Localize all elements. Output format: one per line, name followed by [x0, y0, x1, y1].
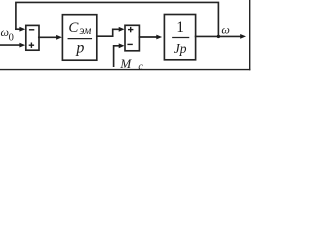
wire Mc input to summer S2 minus input	[114, 46, 119, 66]
svg-text:M: M	[119, 56, 132, 71]
wire feedback top line	[16, 2, 219, 35]
wire W2 output omega	[196, 35, 241, 37]
svg-text:ω: ω	[221, 23, 229, 37]
svg-text:c: c	[138, 62, 143, 73]
frame border right	[249, 0, 251, 70]
node dot feedback junction	[217, 35, 220, 38]
svg-text:0: 0	[9, 32, 14, 43]
summer S2 box	[125, 25, 139, 51]
arrowhead into S1 minus	[19, 27, 25, 32]
label minus in S2	[127, 43, 132, 45]
frame border bottom	[0, 69, 250, 71]
summer S1 box	[26, 25, 39, 50]
wire omega0 input	[0, 44, 20, 46]
block W2 (1/Jp) box	[164, 15, 195, 60]
label plus in S1	[29, 44, 34, 46]
wire W1 output to summer S2 plus input	[97, 29, 119, 36]
wire S1 output to block W1	[39, 36, 56, 38]
wire feedback arrow into summer S1 minus input	[16, 28, 20, 30]
svg-text:эм: эм	[79, 25, 92, 37]
arrowhead into S2 plus	[119, 27, 125, 32]
svg-text:Jp: Jp	[174, 41, 187, 56]
fraction bar of W2	[173, 37, 189, 39]
arrowhead into W1	[56, 35, 62, 40]
svg-text:С: С	[68, 20, 79, 36]
label plus in S2	[128, 29, 133, 31]
fraction bar of W1	[68, 38, 91, 40]
arrowhead omega output	[240, 34, 246, 39]
arrowhead into W2	[156, 35, 162, 40]
wire S2 output to block W2	[139, 36, 156, 38]
arrowhead omega0 into S1 plus	[19, 43, 25, 48]
arrowhead Mc into S2 minus	[119, 43, 125, 48]
svg-text:1: 1	[176, 19, 184, 36]
block W1 (Cem/p) box	[62, 15, 96, 61]
label minus in S1	[29, 29, 34, 31]
svg-text:p: p	[75, 39, 84, 56]
